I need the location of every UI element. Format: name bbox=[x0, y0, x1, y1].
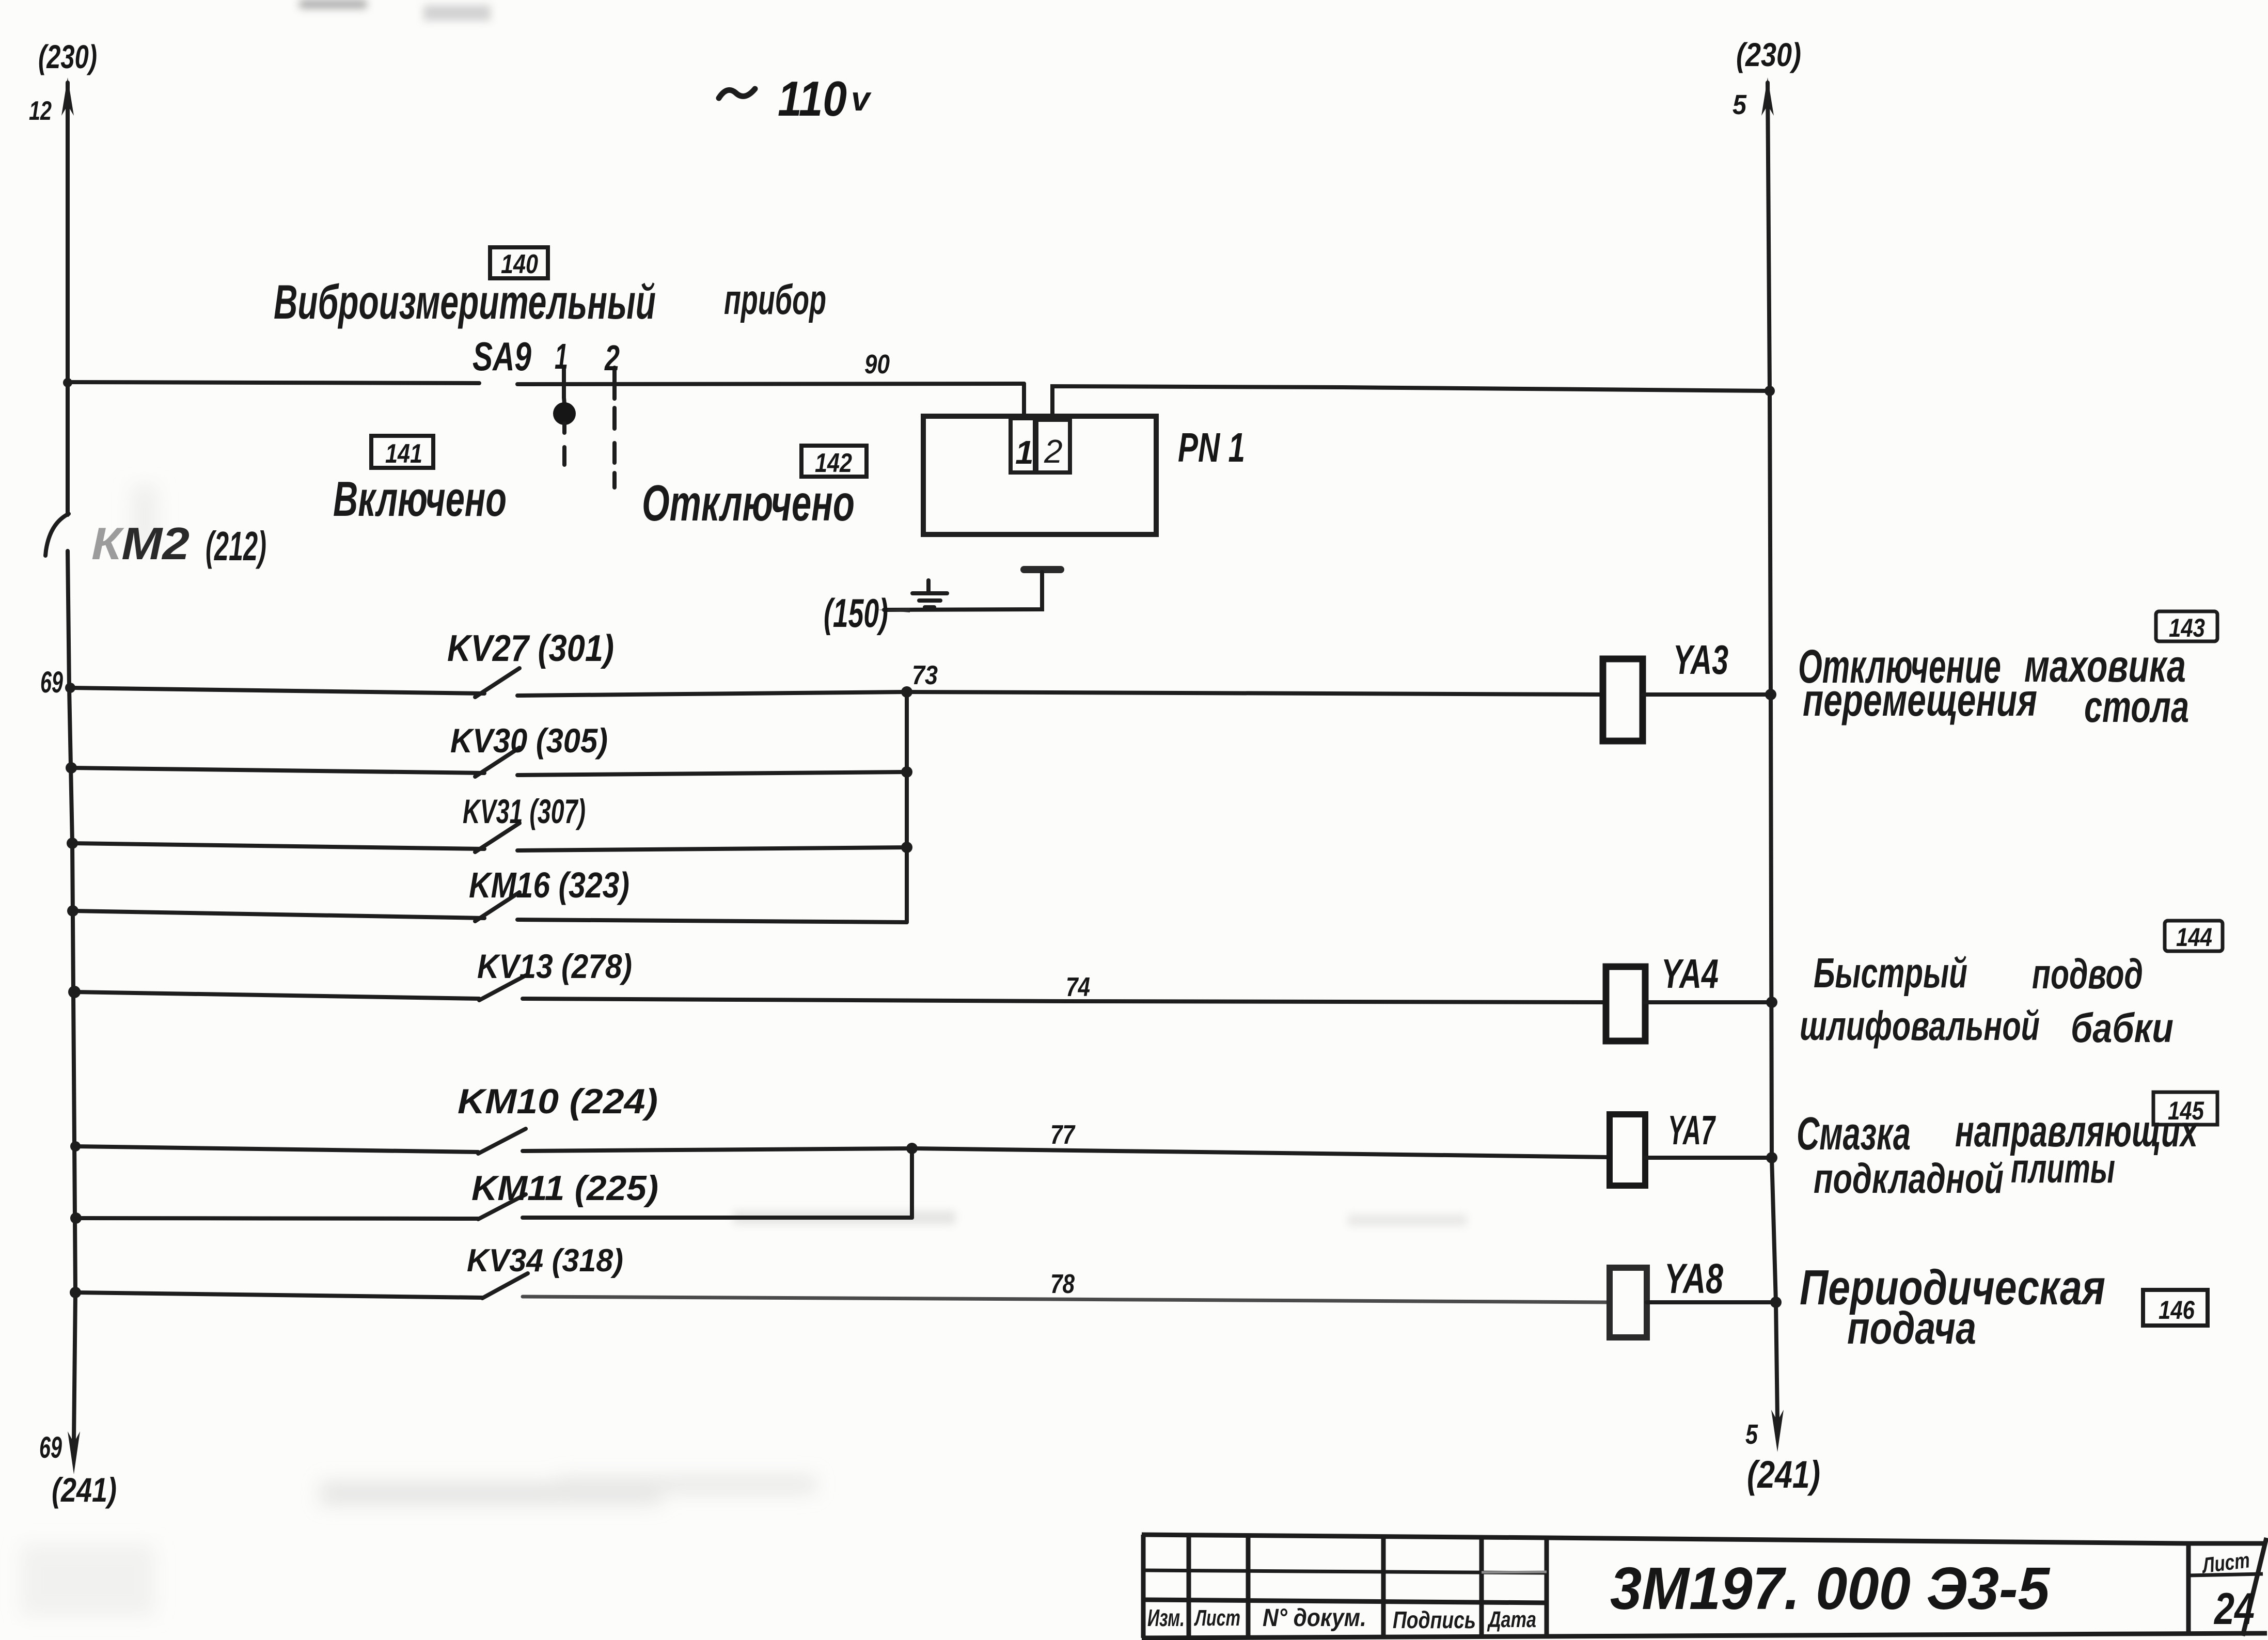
wire coil YA7 to right bus bbox=[1645, 1156, 1772, 1160]
note box 143 bbox=[2156, 611, 2217, 642]
junction node rung4 on left bus bbox=[67, 905, 78, 917]
wire 90 segment left bus to SA9 bbox=[68, 382, 479, 383]
coil YA8 bbox=[1610, 1255, 1723, 1337]
instrument PN1 box bbox=[923, 416, 1156, 534]
coil YA4 bbox=[1606, 951, 1719, 1041]
svg-text:Включено: Включено bbox=[333, 471, 507, 527]
wire 74 contact KV13 to coil YA4 bbox=[523, 999, 1606, 1002]
svg-text:v: v bbox=[851, 80, 872, 118]
svg-text:3М197. 000 Э3-5: 3М197. 000 Э3-5 bbox=[1610, 1555, 2050, 1622]
svg-text:142: 142 bbox=[815, 448, 852, 478]
svg-text:24: 24 bbox=[2213, 1584, 2255, 1634]
contact KV31 (307) bbox=[463, 792, 586, 852]
AC supply label ~110v bbox=[719, 71, 872, 127]
svg-text:2: 2 bbox=[604, 338, 620, 378]
PN1 pin 2 box bbox=[1036, 420, 1070, 472]
svg-text:плиты: плиты bbox=[2011, 1145, 2115, 1191]
svg-text:141: 141 bbox=[385, 439, 422, 469]
coil YA3 bbox=[1603, 637, 1728, 741]
svg-text:KV13 (278): KV13 (278) bbox=[477, 947, 632, 985]
junction node YA4 on right bus bbox=[1766, 997, 1777, 1008]
svg-text:78: 78 bbox=[1050, 1269, 1075, 1299]
junction node rung2 on left bus bbox=[66, 762, 77, 774]
svg-text:подвод: подвод bbox=[2032, 951, 2143, 998]
wire 78 contact KV34 to coil YA8 bbox=[523, 1297, 1610, 1302]
note box 141 bbox=[371, 436, 433, 469]
junction node 73 bbox=[901, 686, 912, 698]
wire 77 contact KM10 to coil YA7 bbox=[523, 1148, 1610, 1157]
svg-text:перемещения: перемещения bbox=[1803, 674, 2037, 726]
wire coil YA4 to right bus bbox=[1645, 1000, 1772, 1004]
svg-text:KV27 (301): KV27 (301) bbox=[447, 628, 614, 669]
tie wire rung7 to rung6 bbox=[910, 1148, 914, 1218]
wire 73 contact KV27 to coil YA3 bbox=[517, 692, 1603, 696]
junction node rung3 tie bbox=[901, 842, 912, 853]
svg-text:шлифовальной: шлифовальной bbox=[1800, 1003, 2040, 1049]
wire contact KV31 to node 73 tie bbox=[517, 847, 907, 850]
wire rung1 left bus to contact KV27 bbox=[70, 688, 484, 693]
svg-text:KV30 (305): KV30 (305) bbox=[450, 721, 608, 760]
junction node YA3 on right bus bbox=[1765, 689, 1776, 700]
svg-text:Изм.: Изм. bbox=[1147, 1604, 1185, 1631]
junction node rung2 tie bbox=[901, 766, 912, 778]
contact KV13 (278) bbox=[477, 947, 632, 1000]
svg-text:12: 12 bbox=[29, 96, 52, 126]
junction node wire90 on right bus bbox=[1765, 386, 1775, 396]
svg-text:прибор: прибор bbox=[724, 276, 826, 323]
svg-text:YA8: YA8 bbox=[1664, 1255, 1723, 1302]
wire left bus 69 (upper segment, node 230 to KM2) bbox=[61, 77, 74, 515]
wire SA9 to PN1 pin1 bbox=[1022, 384, 1026, 417]
svg-text:(230): (230) bbox=[38, 38, 97, 75]
junction node rung5 on left bus bbox=[68, 986, 81, 998]
wire rung3 left bus to contact KV31 bbox=[72, 843, 484, 849]
wire rung2 left bus to contact KV30 bbox=[71, 768, 484, 773]
svg-text:143: 143 bbox=[2169, 613, 2205, 642]
svg-text:KM16 (323): KM16 (323) bbox=[469, 865, 629, 905]
svg-text:Лист: Лист bbox=[1194, 1605, 1240, 1631]
junction node rung7 on left bus bbox=[70, 1212, 82, 1224]
svg-text:Дата: Дата bbox=[1487, 1607, 1536, 1632]
junction node rung1 on left bus bbox=[65, 683, 75, 693]
svg-text:подача: подача bbox=[1847, 1302, 1976, 1353]
svg-text:Смазка: Смазка bbox=[1797, 1108, 1911, 1160]
contact KM2 (212) bbox=[45, 514, 266, 569]
svg-text:Подпись: Подпись bbox=[1393, 1606, 1476, 1633]
caption Отключение маховика перемещения стола bbox=[1798, 640, 2189, 732]
caption Смазка направляющих подкладной плиты bbox=[1797, 1107, 2199, 1202]
svg-text:KV34 (318): KV34 (318) bbox=[467, 1243, 623, 1279]
svg-text:(241): (241) bbox=[1747, 1453, 1820, 1496]
svg-text:подкладной: подкладной bbox=[1814, 1155, 2004, 1202]
wire contact KM16 to tie bottom corner bbox=[517, 920, 907, 922]
svg-text:90: 90 bbox=[864, 350, 890, 380]
wire left bus 69 (lower segment, KM2 to node 241) bbox=[68, 551, 80, 1474]
caption Периодическая подача bbox=[1800, 1260, 2105, 1353]
title block mid divider (faint, Подпись/Дата) bbox=[1482, 1572, 1547, 1572]
svg-text:73: 73 bbox=[912, 660, 938, 690]
note box 146 bbox=[2143, 1290, 2208, 1326]
wire contact KV30 to node 73 tie bbox=[517, 772, 907, 775]
note box 145 bbox=[2153, 1092, 2217, 1125]
ground connection of PN1 bbox=[878, 570, 1061, 612]
wire contact KM11 to tie corner bbox=[523, 1216, 912, 1220]
svg-text:(241): (241) bbox=[52, 1471, 117, 1509]
svg-text:KV31 (307): KV31 (307) bbox=[463, 792, 586, 830]
svg-text:YA4: YA4 bbox=[1661, 951, 1719, 997]
note box 140 bbox=[490, 247, 548, 279]
junction node rung3 on left bus bbox=[67, 838, 78, 849]
wire PN1 pin2 to right bus (wire 90) bbox=[1052, 386, 1770, 419]
svg-text:YA7: YA7 bbox=[1668, 1107, 1716, 1153]
switch SA9 bbox=[517, 368, 1024, 487]
svg-text:SA9: SA9 bbox=[472, 334, 531, 379]
svg-text:144: 144 bbox=[2176, 923, 2212, 952]
svg-text:(150): (150) bbox=[824, 590, 888, 636]
contact KV27 (301) bbox=[447, 628, 614, 697]
PN1 pin 1 box bbox=[1011, 418, 1035, 472]
svg-text:5: 5 bbox=[1745, 1419, 1758, 1450]
contact KM10 (224) bbox=[458, 1082, 658, 1154]
svg-text:(212): (212) bbox=[206, 523, 266, 569]
wire rung8 left bus to contact KV34 bbox=[75, 1292, 482, 1298]
svg-text:1: 1 bbox=[555, 336, 568, 376]
junction node YA8 on right bus bbox=[1770, 1297, 1782, 1308]
svg-text:5: 5 bbox=[1732, 89, 1747, 120]
svg-text:KM11 (225): KM11 (225) bbox=[471, 1169, 658, 1208]
wire rung6 left bus to contact KM10 bbox=[75, 1146, 478, 1152]
svg-text:стола: стола bbox=[2084, 682, 2189, 732]
svg-text:69: 69 bbox=[39, 1431, 62, 1464]
caption Быстрый подвод шлифовальной бабки bbox=[1800, 950, 2173, 1051]
svg-text:YA3: YA3 bbox=[1673, 637, 1728, 683]
tie wire rungs 2-4 to node 73 bbox=[905, 692, 909, 922]
svg-text:1: 1 bbox=[1015, 434, 1034, 471]
svg-text:КМ2: КМ2 bbox=[91, 518, 190, 569]
wire coil YA8 to right bus bbox=[1647, 1300, 1776, 1304]
note box 142 bbox=[801, 446, 867, 478]
svg-text:(230): (230) bbox=[1736, 36, 1801, 73]
wire rung7 left bus to contact KM11 bbox=[76, 1218, 478, 1219]
earth ground symbol bbox=[912, 580, 947, 607]
contact KM16 (323) bbox=[469, 865, 629, 921]
title block frame bbox=[1142, 1535, 2267, 1638]
junction node YA7 on right bus bbox=[1766, 1152, 1777, 1163]
junction node rung6 on left bus bbox=[70, 1141, 81, 1152]
contact KV30 (305) bbox=[450, 721, 608, 777]
coil YA7 bbox=[1610, 1107, 1716, 1186]
svg-text:Виброизмерительный: Виброизмерительный bbox=[274, 275, 656, 329]
svg-text:Отключено: Отключено bbox=[642, 475, 855, 531]
wire right bus 5 (node 230 to node 241) bbox=[1761, 77, 1784, 1452]
svg-text:146: 146 bbox=[2159, 1296, 2195, 1324]
contact KM11 (225) bbox=[471, 1169, 658, 1219]
wire rung5 left bus to contact KV13 bbox=[74, 992, 479, 999]
svg-text:N° докум.: N° докум. bbox=[1263, 1604, 1366, 1632]
svg-text:110: 110 bbox=[778, 71, 847, 127]
junction node wire90 on left bus bbox=[63, 378, 72, 387]
caption Виброизмерительный прибор bbox=[274, 275, 826, 329]
wire coil YA3 to right bus bbox=[1643, 692, 1771, 697]
svg-text:PN 1: PN 1 bbox=[1178, 424, 1245, 470]
svg-text:77: 77 bbox=[1050, 1120, 1076, 1150]
svg-text:бабки: бабки bbox=[2071, 1005, 2173, 1051]
wire rung4 left bus to contact KM16 bbox=[73, 911, 484, 918]
svg-text:74: 74 bbox=[1066, 972, 1090, 1002]
junction node rung6/rung7 tie bbox=[906, 1143, 918, 1154]
svg-text:Быстрый: Быстрый bbox=[1814, 950, 1967, 997]
svg-text:KM10 (224): KM10 (224) bbox=[458, 1082, 658, 1121]
note box 144 bbox=[2165, 921, 2223, 952]
svg-text:2: 2 bbox=[1044, 433, 1063, 470]
junction node rung8 on left bus bbox=[70, 1287, 81, 1298]
svg-text:69: 69 bbox=[40, 666, 63, 699]
contact KV34 (318) bbox=[467, 1243, 623, 1298]
